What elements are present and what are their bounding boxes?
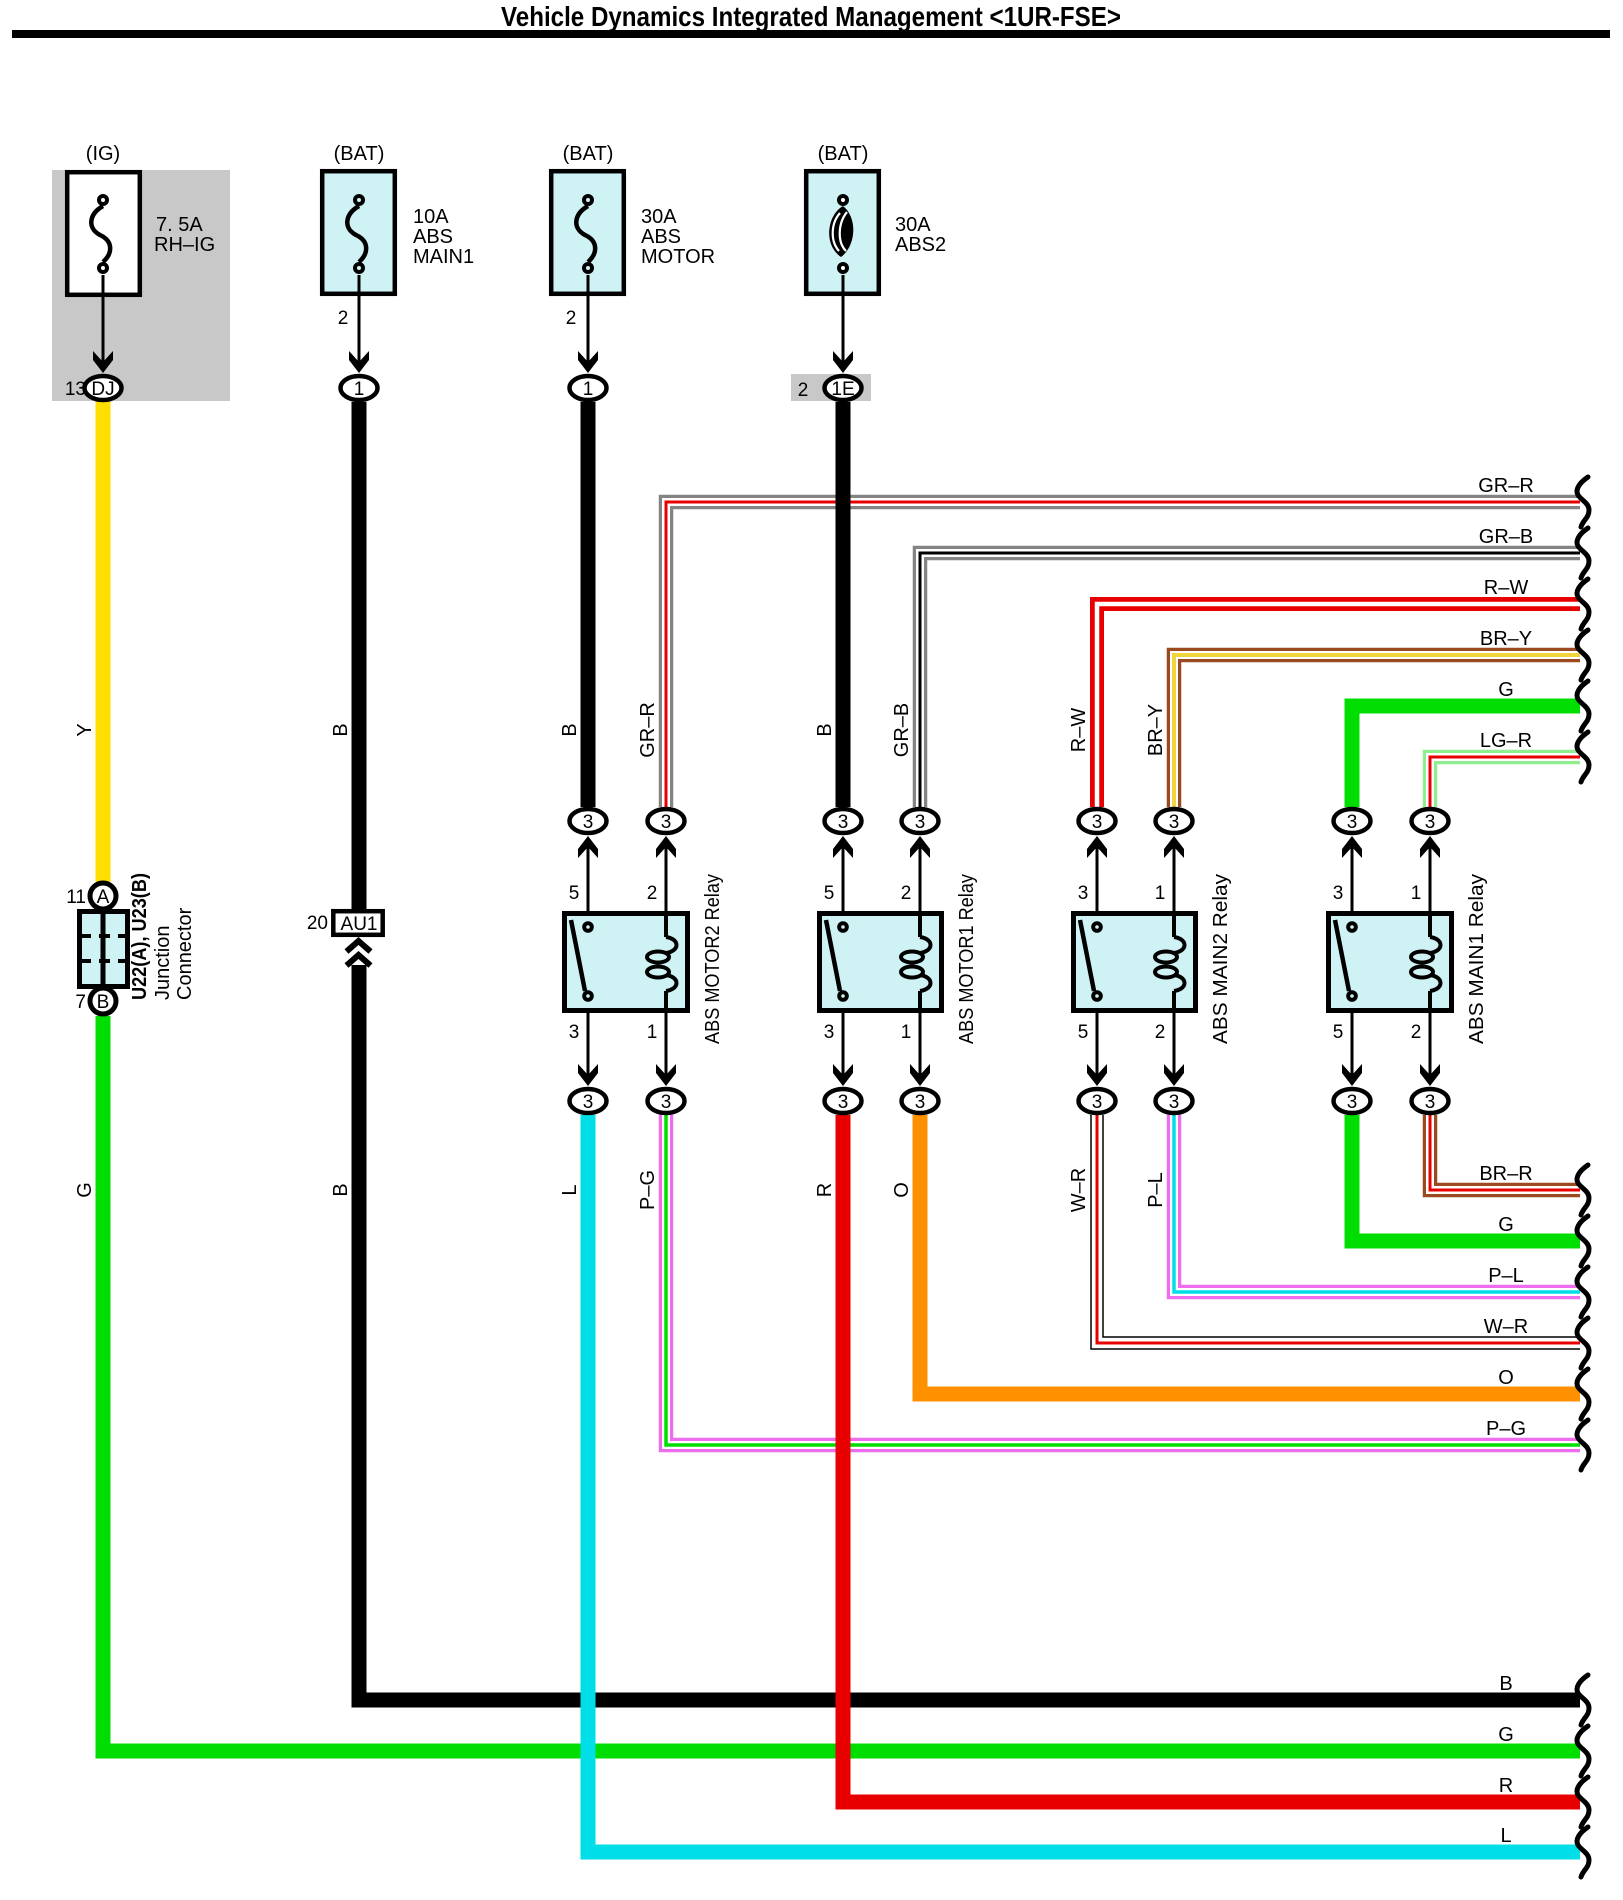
arrow up into 3 above MOTOR1 pin2 bbox=[910, 836, 930, 858]
svg-text:AU1: AU1 bbox=[341, 914, 378, 935]
svg-text:2: 2 bbox=[798, 380, 809, 401]
connector 3 below MOTOR1 pin3 bbox=[825, 1089, 862, 1113]
wire MOTOR2 pin5 to arrow bbox=[587, 847, 590, 922]
svg-text:1: 1 bbox=[647, 1022, 658, 1043]
fuse element ABS MOTOR bbox=[576, 196, 595, 272]
svg-text:B: B bbox=[330, 723, 352, 736]
connector 3 below MAIN2 pin5 bbox=[1079, 1089, 1116, 1113]
svg-text:1: 1 bbox=[901, 1022, 912, 1043]
arrow up into 3 above MAIN1 pin1 bbox=[1420, 836, 1440, 858]
svg-text:3: 3 bbox=[583, 812, 594, 833]
svg-text:Connector: Connector bbox=[174, 907, 196, 1000]
connector 3 below MAIN2 pin2 bbox=[1156, 1089, 1193, 1113]
wire R red (MOTOR1 relay pin3 down to right) bbox=[843, 1115, 1580, 1802]
svg-text:P–G: P–G bbox=[637, 1170, 659, 1210]
arrow into 1E bbox=[833, 351, 853, 373]
wire MAIN2 pin2 from relay bbox=[1173, 1000, 1176, 1076]
arrow down into 3 below MAIN2 pin5 bbox=[1087, 1064, 1107, 1086]
svg-text:DJ: DJ bbox=[91, 379, 114, 400]
relay ABS MAIN2 bbox=[1074, 874, 1233, 1044]
svg-text:MOTOR: MOTOR bbox=[641, 246, 715, 268]
break mark GR-R wire end bbox=[1577, 477, 1589, 527]
svg-text:2: 2 bbox=[647, 883, 658, 904]
svg-text:3: 3 bbox=[915, 812, 926, 833]
svg-text:BR–Y: BR–Y bbox=[1480, 628, 1532, 650]
svg-text:W–R: W–R bbox=[1068, 1168, 1090, 1212]
svg-text:GR–R: GR–R bbox=[1478, 475, 1534, 497]
wire B black (fuse ABS2 to MOTOR1 relay pin5) bbox=[836, 402, 851, 807]
svg-text:3: 3 bbox=[1347, 812, 1358, 833]
wire fuse ABS MAIN1 pin2 bbox=[358, 275, 361, 362]
wire P-G (MOTOR2 relay pin1 down to right) bbox=[666, 1115, 1580, 1445]
wire Y yellow (fuse RH-IG to junction A) bbox=[96, 400, 111, 882]
break mark BR-Y wire end bbox=[1577, 630, 1589, 680]
svg-text:BR–Y: BR–Y bbox=[1145, 704, 1167, 756]
svg-text:(IG): (IG) bbox=[86, 143, 120, 165]
svg-text:11: 11 bbox=[66, 887, 86, 908]
fuse box ABS MOTOR bbox=[551, 171, 624, 294]
svg-text:7. 5A: 7. 5A bbox=[156, 214, 203, 236]
svg-text:ABS: ABS bbox=[641, 226, 681, 248]
svg-text:R: R bbox=[814, 1183, 836, 1197]
fuse element ABS MAIN1 bbox=[347, 196, 366, 272]
relay ABS MOTOR2 bbox=[565, 874, 725, 1044]
wire B black (AU1 down and bottom right) bbox=[359, 965, 1580, 1700]
wire R-W (MAIN2 relay pin3 to right) bbox=[1097, 604, 1580, 807]
svg-text:1: 1 bbox=[1155, 883, 1166, 904]
wire MAIN1 pin5 from relay bbox=[1351, 1000, 1354, 1076]
svg-text:1: 1 bbox=[1411, 883, 1422, 904]
break mark W-R wire end bbox=[1577, 1318, 1589, 1368]
break mark BR-R wire end bbox=[1577, 1165, 1589, 1215]
svg-text:3: 3 bbox=[1169, 812, 1180, 833]
wire MAIN2 pin3 to arrow bbox=[1096, 847, 1099, 922]
svg-text:O: O bbox=[1498, 1367, 1514, 1389]
svg-text:2: 2 bbox=[1411, 1022, 1422, 1043]
break mark GR-B wire end bbox=[1577, 528, 1589, 578]
svg-text:3: 3 bbox=[824, 1022, 835, 1043]
svg-text:ABS MOTOR2 Relay: ABS MOTOR2 Relay bbox=[702, 874, 724, 1044]
svg-text:B: B bbox=[97, 992, 110, 1013]
wire B black (fuse ABS MAIN1 to AU1) bbox=[352, 402, 367, 909]
svg-text:3: 3 bbox=[915, 1092, 926, 1113]
svg-text:B: B bbox=[330, 1183, 352, 1196]
arrow down into 3 below MAIN1 pin5 bbox=[1342, 1064, 1362, 1086]
gray tag behind pin 2 / connector 1E bbox=[791, 374, 871, 401]
svg-text:10A: 10A bbox=[413, 206, 449, 228]
svg-text:P–G: P–G bbox=[1486, 1418, 1526, 1440]
svg-text:Junction: Junction bbox=[152, 926, 174, 1001]
svg-text:B: B bbox=[559, 723, 581, 736]
wire BR-Y (MAIN2 relay pin1 to right) bbox=[1174, 655, 1580, 807]
svg-text:L: L bbox=[559, 1184, 581, 1195]
wire MOTOR1 pin1 from relay bbox=[919, 1000, 922, 1076]
break mark G3 wire end bbox=[1577, 1726, 1589, 1776]
svg-text:RH–IG: RH–IG bbox=[154, 234, 215, 256]
wire MAIN2 pin1 to arrow bbox=[1173, 847, 1176, 922]
svg-text:G: G bbox=[1498, 1214, 1514, 1236]
svg-text:ABS2: ABS2 bbox=[895, 234, 946, 256]
arrow into 1 (MOTOR fuse) bbox=[578, 351, 598, 373]
arrow into 1 (MAIN1 fuse) bbox=[349, 351, 369, 373]
wire W-R (MAIN2 relay pin5 down to right) bbox=[1097, 1115, 1580, 1343]
svg-text:(BAT): (BAT) bbox=[563, 143, 614, 165]
svg-text:B: B bbox=[1499, 1673, 1512, 1695]
wire BR-R (MAIN1 relay pin2 down to right) bbox=[1430, 1115, 1580, 1190]
svg-text:3: 3 bbox=[1078, 883, 1089, 904]
svg-text:2: 2 bbox=[566, 308, 577, 329]
break mark L wire end bbox=[1577, 1827, 1589, 1877]
svg-text:BR–R: BR–R bbox=[1479, 1163, 1532, 1185]
svg-text:1: 1 bbox=[583, 379, 594, 400]
wire B black (fuse ABS MOTOR to MOTOR2 relay pin5) bbox=[581, 402, 596, 807]
arrow up into 3 above MAIN2 pin1 bbox=[1164, 836, 1184, 858]
svg-text:W–R: W–R bbox=[1484, 1316, 1528, 1338]
svg-text:1: 1 bbox=[354, 379, 365, 400]
svg-text:R: R bbox=[1499, 1775, 1513, 1797]
connector 1 (ABS MAIN1) bbox=[341, 376, 378, 400]
arrow up into 3 above MOTOR2 pin2 bbox=[656, 836, 676, 858]
svg-text:P–L: P–L bbox=[1488, 1265, 1524, 1287]
svg-text:Vehicle Dynamics Integrated Ma: Vehicle Dynamics Integrated Management <… bbox=[501, 1, 1121, 32]
break mark P-L wire end bbox=[1577, 1267, 1589, 1317]
arrow down into 3 below MAIN2 pin2 bbox=[1164, 1064, 1184, 1086]
fuse box ABS2 bbox=[806, 171, 879, 294]
break mark B wire end bbox=[1577, 1675, 1589, 1725]
svg-text:L: L bbox=[1500, 1825, 1511, 1847]
svg-text:3: 3 bbox=[583, 1092, 594, 1113]
svg-text:3: 3 bbox=[838, 1092, 849, 1113]
svg-text:ABS MAIN2 Relay: ABS MAIN2 Relay bbox=[1210, 874, 1232, 1044]
svg-text:Y: Y bbox=[74, 723, 96, 736]
wire MOTOR2 pin3 from relay bbox=[587, 1000, 590, 1076]
svg-text:(BAT): (BAT) bbox=[818, 143, 869, 165]
svg-text:GR–R: GR–R bbox=[637, 702, 659, 758]
relay ABS MAIN1 bbox=[1329, 874, 1489, 1044]
connector 1 (ABS MOTOR) bbox=[570, 376, 607, 400]
svg-text:GR–B: GR–B bbox=[1479, 526, 1533, 548]
gray panel (IG circuit area) bbox=[52, 170, 230, 401]
arrow up into 3 above MAIN1 pin3 bbox=[1342, 836, 1362, 858]
connector 3 above MOTOR2 pin2 bbox=[648, 809, 685, 833]
svg-text:20: 20 bbox=[307, 913, 328, 934]
wire fuse ABS2 bbox=[842, 275, 845, 362]
connector 3 below MAIN1 pin5 bbox=[1334, 1089, 1371, 1113]
svg-text:3: 3 bbox=[569, 1022, 580, 1043]
svg-text:3: 3 bbox=[1425, 812, 1436, 833]
wire L cyan (MOTOR2 relay pin3 down to right) bbox=[588, 1115, 1580, 1852]
wire fuse RH-IG to DJ bbox=[102, 275, 105, 362]
svg-text:R–W: R–W bbox=[1068, 708, 1090, 753]
junction connector U22(A) U23(B) bbox=[80, 883, 129, 1014]
svg-text:2: 2 bbox=[338, 308, 349, 329]
svg-text:3: 3 bbox=[661, 812, 672, 833]
svg-text:GR–B: GR–B bbox=[891, 703, 913, 757]
svg-text:ABS MOTOR1 Relay: ABS MOTOR1 Relay bbox=[956, 874, 978, 1044]
svg-text:3: 3 bbox=[1425, 1092, 1436, 1113]
svg-text:30A: 30A bbox=[641, 206, 677, 228]
connector 3 above MAIN1 pin1 bbox=[1412, 809, 1449, 833]
connector 3 below MOTOR2 pin3 bbox=[570, 1089, 607, 1113]
svg-text:5: 5 bbox=[1333, 1022, 1344, 1043]
svg-text:1E: 1E bbox=[831, 379, 854, 400]
svg-text:3: 3 bbox=[661, 1092, 672, 1113]
svg-text:O: O bbox=[891, 1182, 913, 1198]
arrow down into 3 below MOTOR2 pin1 bbox=[656, 1064, 676, 1086]
svg-text:2: 2 bbox=[1155, 1022, 1166, 1043]
break mark R wire end bbox=[1577, 1777, 1589, 1827]
svg-text:5: 5 bbox=[569, 883, 580, 904]
connector 3 below MOTOR1 pin1 bbox=[902, 1089, 939, 1113]
wire GR-B (MOTOR1 relay pin2 to right) bbox=[920, 553, 1580, 807]
break mark O wire end bbox=[1577, 1369, 1589, 1419]
wire G green (junction B down and bottom right) bbox=[103, 1016, 1580, 1751]
wire fuse ABS MOTOR pin2 bbox=[587, 275, 590, 362]
svg-text:5: 5 bbox=[824, 883, 835, 904]
svg-text:30A: 30A bbox=[895, 214, 931, 236]
svg-text:13: 13 bbox=[65, 379, 86, 400]
connector 3 below MAIN1 pin2 bbox=[1412, 1089, 1449, 1113]
wire MAIN1 pin3 to arrow bbox=[1351, 847, 1354, 922]
connector 3 above MOTOR2 pin5 bbox=[570, 809, 607, 833]
svg-text:G: G bbox=[1498, 1724, 1514, 1746]
svg-text:G: G bbox=[1498, 679, 1514, 701]
svg-text:B: B bbox=[814, 723, 836, 736]
title underline bar bbox=[12, 30, 1610, 38]
break mark G wire end bbox=[1577, 681, 1589, 731]
arrow into DJ bbox=[93, 351, 113, 373]
svg-text:A: A bbox=[97, 887, 110, 908]
connector AU1 bbox=[333, 911, 382, 965]
break mark R-W wire end bbox=[1577, 579, 1589, 629]
wire O orange (MOTOR1 relay pin1 down to right) bbox=[920, 1115, 1580, 1394]
connector 3 above MOTOR1 pin5 bbox=[825, 809, 862, 833]
connector 3 above MAIN1 pin3 bbox=[1334, 809, 1371, 833]
fuse element RH-IG bbox=[91, 196, 110, 272]
wire G thick (MAIN1 relay pin3 to right) bbox=[1352, 706, 1580, 807]
svg-text:3: 3 bbox=[838, 812, 849, 833]
svg-text:(BAT): (BAT) bbox=[334, 143, 385, 165]
svg-text:2: 2 bbox=[901, 883, 912, 904]
connector 3 above MAIN2 pin3 bbox=[1079, 809, 1116, 833]
arrow up into 3 above MOTOR1 pin5 bbox=[833, 836, 853, 858]
arrow down into 3 below MOTOR1 pin1 bbox=[910, 1064, 930, 1086]
wire MOTOR1 pin5 to arrow bbox=[842, 847, 845, 922]
wire MAIN1 pin2 from relay bbox=[1429, 1000, 1432, 1076]
wire GR-R (MOTOR2 relay pin2 to right) bbox=[666, 502, 1580, 807]
wire MAIN1 pin1 to arrow bbox=[1429, 847, 1432, 922]
arrow down into 3 below MOTOR2 pin3 bbox=[578, 1064, 598, 1086]
connector 3 below MOTOR2 pin1 bbox=[648, 1089, 685, 1113]
connector DJ bbox=[85, 376, 122, 400]
wire MOTOR2 pin2 to arrow bbox=[665, 847, 668, 922]
svg-text:MAIN1: MAIN1 bbox=[413, 246, 474, 268]
connector 1E bbox=[825, 376, 862, 400]
arrow up into 3 above MOTOR2 pin5 bbox=[578, 836, 598, 858]
svg-text:U22(A), U23(B): U22(A), U23(B) bbox=[129, 873, 151, 1000]
arrow down into 3 below MOTOR1 pin3 bbox=[833, 1064, 853, 1086]
break mark LG-R wire end bbox=[1577, 732, 1589, 782]
svg-text:R–W: R–W bbox=[1484, 577, 1529, 599]
fuse box ABS MAIN1 bbox=[322, 171, 395, 294]
arrow up into 3 above MAIN2 pin3 bbox=[1087, 836, 1107, 858]
svg-text:ABS MAIN1 Relay: ABS MAIN1 Relay bbox=[1466, 874, 1488, 1044]
wire MOTOR1 pin3 from relay bbox=[842, 1000, 845, 1076]
connector 3 above MAIN2 pin1 bbox=[1156, 809, 1193, 833]
svg-text:3: 3 bbox=[1092, 812, 1103, 833]
wire MOTOR2 pin1 from relay bbox=[665, 1000, 668, 1076]
svg-text:3: 3 bbox=[1169, 1092, 1180, 1113]
wire LG-R (MAIN1 relay pin1 to right) bbox=[1430, 757, 1580, 807]
break mark G2 wire end bbox=[1577, 1216, 1589, 1266]
connector 3 above MOTOR1 pin2 bbox=[902, 809, 939, 833]
svg-text:3: 3 bbox=[1333, 883, 1344, 904]
wire P-L (MAIN2 relay pin2 down to right) bbox=[1174, 1115, 1580, 1292]
wire MAIN2 pin5 from relay bbox=[1096, 1000, 1099, 1076]
fusible link element ABS2 bbox=[829, 196, 853, 272]
svg-text:G: G bbox=[74, 1182, 96, 1198]
wire MOTOR1 pin2 to arrow bbox=[919, 847, 922, 922]
svg-text:7: 7 bbox=[75, 992, 86, 1013]
svg-text:ABS: ABS bbox=[413, 226, 453, 248]
break mark P-G wire end bbox=[1577, 1420, 1589, 1470]
wire G thick (MAIN1 relay pin5 down to right) bbox=[1352, 1115, 1580, 1241]
svg-text:3: 3 bbox=[1092, 1092, 1103, 1113]
svg-text:LG–R: LG–R bbox=[1480, 730, 1532, 752]
fuse box RH-IG bbox=[67, 172, 140, 295]
svg-text:5: 5 bbox=[1078, 1022, 1089, 1043]
svg-text:P–L: P–L bbox=[1145, 1172, 1167, 1208]
arrow down into 3 below MAIN1 pin2 bbox=[1420, 1064, 1440, 1086]
relay ABS MOTOR1 bbox=[820, 874, 979, 1044]
svg-text:3: 3 bbox=[1347, 1092, 1358, 1113]
